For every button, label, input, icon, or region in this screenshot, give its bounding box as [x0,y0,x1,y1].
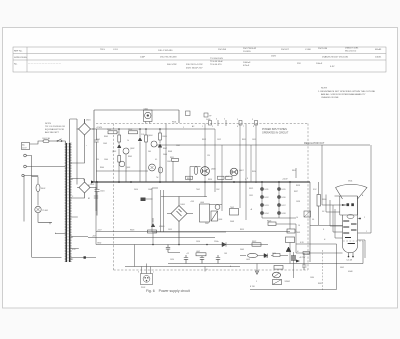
electrolytic C623 [216,255,220,264]
svg-text:D606: D606 [163,154,167,156]
power transformer T601 [66,143,69,262]
svg-text:6GH8: 6GH8 [348,271,352,273]
bridge rectifier D602 [71,179,96,198]
resistor R616 above bus [226,176,233,179]
svg-text:1k: 1k [127,140,129,142]
electrode bars [343,221,356,238]
svg-text:H2: H2 [71,259,73,261]
AC interlock connector [141,274,153,285]
note text block (left) [45,123,65,134]
svg-text:C612: C612 [217,139,221,141]
svg-text:R622: R622 [252,241,256,243]
svg-text:R620: R620 [252,171,256,173]
resistor R602 [129,131,138,134]
svg-text:VR601: VR601 [159,226,165,228]
svg-text:C615: C615 [168,229,172,231]
svg-text:C630: C630 [310,277,314,279]
svg-text:R626: R626 [267,220,271,222]
svg-text:1: 1 [366,231,367,233]
svg-text:Q607: Q607 [239,170,244,172]
electrolytic C621 [184,255,188,264]
thermistor TH601 oval [158,167,162,173]
svg-text:D615: D615 [282,189,286,191]
transistor Q603 [119,161,125,167]
svg-text:D614: D614 [265,213,269,215]
svg-text:450V 330uF 25V: 450V 330uF 25V [186,68,203,70]
resistor R606 vertical x160 [159,133,162,140]
svg-text:REG: REG [292,170,296,172]
verticals below bus [205,182,246,220]
svg-text:100uF: 100uF [316,63,323,65]
svg-text:TLS-54 470: TLS-54 470 [210,64,222,66]
svg-text:1000uF: 1000uF [243,62,251,64]
left-edge tiny labels [55,179,90,261]
svg-text:P602: P602 [141,287,145,289]
svg-text:Q603: Q603 [126,167,130,169]
table row 1 text [100,48,382,53]
svg-text:R621: R621 [249,188,253,190]
svg-text:0.1: 0.1 [155,159,157,161]
svg-text:+: + [86,145,87,147]
svg-text:D608: D608 [230,221,234,223]
choke L602 [196,253,206,256]
svg-text:G1: G1 [312,219,314,221]
svg-text:117V: 117V [22,147,27,149]
resistor R603 vertical [118,135,121,142]
svg-text:AUX RECEPT: AUX RECEPT [45,131,60,134]
CRT body [343,196,358,253]
svg-text:47: 47 [117,132,119,134]
transformer right tap upper [71,216,78,218]
main B+ bus [94,181,310,183]
svg-text:2SC458: 2SC458 [218,49,227,51]
diode D605 x160 [158,144,162,147]
wire plug2 to transformer [26,166,65,168]
svg-text:C604: C604 [104,159,108,161]
capacitor C602 [94,187,98,211]
resistor R624 [273,254,280,257]
dashed top edge [96,123,308,125]
svg-text:6R-A3: 6R-A3 [375,48,382,51]
svg-text:Q606: Q606 [211,169,216,171]
svg-text:2200u: 2200u [214,241,219,243]
arrow on dashed bottom [255,264,259,275]
svg-text:C603: C603 [103,143,107,145]
solder dot [84,256,86,258]
regulator out line y145 [157,144,370,146]
bridge rectifier D606 [167,197,193,245]
heater pins [349,253,354,258]
svg-text:140P: 140P [140,57,146,59]
svg-text:TLS-54 56uF: TLS-54 56uF [210,61,223,63]
resistor R615 above bus [218,176,225,179]
tube to socket wire [358,240,366,258]
capacitor C603 on rectifier output [94,129,98,182]
scattered component value labels [86,125,367,285]
svg-text:CHASSIS IN USE: CHASSIS IN USE [321,96,339,99]
svg-text:E 760: E 760 [250,286,255,288]
wire y171 [96,170,148,172]
capacitor C601 [95,182,100,216]
svg-text:R604: R604 [100,167,104,169]
svg-text:10LB1: 10LB1 [375,57,382,59]
labels left of columns [249,188,253,197]
VR cluster bottom [274,266,283,270]
svg-text:+150V: +150V [96,127,103,129]
cap on heater line [302,253,306,270]
connector pins on dashed edge [209,121,258,126]
svg-text:D616: D616 [282,197,286,199]
resistor R604 vertical [118,156,121,163]
svg-text:C611: C611 [249,195,253,197]
svg-text:C616: C616 [196,241,200,243]
wire bridge1 bottom to tap [71,137,85,163]
svg-text:— — — — — — — — — — — —: — — — — — — — — — — — — [28,63,62,65]
svg-text:P601: P601 [172,122,176,124]
svg-text:R616: R616 [208,179,212,181]
anode dot [359,218,361,220]
heater return bottom [250,244,337,290]
power transistor Q607 [230,168,238,176]
small connector on top line [186,111,191,116]
wire switch to transformer [65,141,67,144]
power transistor Q606 [201,167,210,176]
electrolytic C619 [166,245,170,253]
transistor Q604 [151,141,157,147]
transistor Q605 [149,164,156,171]
svg-text:3: 3 [138,272,139,274]
lower-left rails/verticals [96,182,135,267]
gnd rail junction dots [152,244,208,246]
tap tick labels [245,179,298,219]
transistor Q601 (top can) [144,110,153,122]
power switch S601 [58,139,66,141]
transistor Q602 [123,148,129,154]
heater bar [348,243,355,245]
svg-text:5: 5 [183,127,184,129]
svg-text:R618: R618 [130,230,134,232]
electrolytic C622 [200,256,204,264]
plug terminal upper [24,154,27,157]
gnd rail [96,244,268,246]
svg-text:H1: H1 [71,237,73,239]
ticks on dashed line [218,120,226,126]
svg-text:R602: R602 [128,129,132,131]
svg-text:25V: 25V [297,63,301,65]
mid rail [88,237,215,239]
svg-text:TV-18H 100V: TV-18H 100V [210,58,224,60]
svg-text:D609: D609 [240,249,244,251]
fuse F602 vertical [37,177,39,206]
svg-text:D606: D606 [181,204,185,206]
dark part at frame left [141,198,146,202]
svg-text:D618: D618 [282,213,286,215]
converter section frame [152,188,226,232]
transformer T603 cluster [287,229,295,233]
bus junction dots [96,181,291,183]
svg-text:R630: R630 [322,199,326,201]
svg-text:F602: F602 [41,188,45,190]
wire aux down [24,176,38,222]
switch component dark [211,211,218,221]
svg-text:1: 1 [153,272,154,274]
svg-text:V-090: V-090 [305,49,311,51]
wire fuse to switch [49,140,57,142]
svg-text:D611: D611 [265,189,269,191]
right vertical from bus [309,182,311,262]
parts list table [13,47,386,72]
bridge rectifier D601 [77,119,94,137]
svg-text:+140V: +140V [282,179,288,181]
svg-text:WZ-210 D2: WZ-210 D2 [345,50,357,52]
svg-text:8: 8 [247,178,248,180]
arrow into bus left [91,181,95,184]
aux terminal [22,174,24,176]
svg-text:D610: D610 [134,189,138,191]
svg-text:9: 9 [252,119,253,121]
electrolytic C625 dark [291,256,296,260]
+12V rail [96,231,290,233]
svg-text:EQUIVALENT FOR: EQUIVALENT FOR [45,128,64,131]
svg-text:3: 3 [237,119,238,121]
svg-text:330·1W 1k·1/2W: 330·1W 1k·1/2W [186,64,203,66]
svg-text:R609: R609 [104,136,108,138]
svg-text:R608: R608 [168,151,172,153]
svg-text:560·1/2W: 560·1/2W [167,64,177,66]
svg-text:6: 6 [237,126,238,128]
right-mid small cluster [268,222,276,225]
middle verticals under dashed top [205,124,256,183]
noise filter box [22,143,30,150]
anode return wire [358,145,372,233]
svg-text:F601 3A: F601 3A [43,137,51,140]
svg-text:C613: C613 [252,139,256,141]
svg-text:C620: C620 [170,259,174,261]
svg-text:5-680: 5-680 [206,119,210,121]
svg-text:R619: R619 [240,229,244,231]
svg-text:2SC627: 2SC627 [281,49,290,51]
bottom rail y263.5 [168,263,343,265]
wire bottom return [32,257,62,259]
dashed bottom edge [114,269,309,271]
grid oval [347,215,354,219]
svg-text:C602: C602 [96,139,100,141]
svg-text:R611: R611 [170,157,174,159]
wire plug1 down [26,156,31,258]
dashed unit edge near CRT [322,250,324,290]
svg-text:5: 5 [224,119,225,121]
svg-text:R628: R628 [296,185,300,187]
ticks labels above mid verticals [202,126,254,128]
svg-text:2.2k: 2.2k [141,134,144,136]
svg-text:2SC1030: 2SC1030 [318,48,328,50]
svg-text:D613: D613 [265,205,269,207]
svg-text:R625: R625 [264,257,268,259]
svg-text:T602: T602 [230,207,234,209]
svg-text:S/PROCESS: S/PROCESS [14,57,27,59]
svg-text:D617: D617 [282,205,286,207]
svg-text:C609: C609 [176,145,180,147]
svg-text:L603: L603 [246,259,250,261]
resistor R622 on rail [252,243,261,246]
svg-text:10: 10 [298,225,300,227]
svg-text:C628: C628 [296,201,300,203]
svg-text:T602: T602 [196,189,200,191]
svg-text:G2: G2 [322,211,324,213]
transistor Q608 [215,205,220,210]
svg-text:2SC735 B-62: 2SC735 B-62 [243,48,257,50]
CRT socket box [343,240,363,242]
svg-text:REGULATOR OUT: REGULATOR OUT [304,142,325,145]
svg-text:C-51: C-51 [113,49,119,51]
oval component right row [248,253,258,257]
diode D621 [264,254,268,258]
wire lamp to bus [38,222,52,224]
svg-text:Fig. 6 Power supply circuit: Fig. 6 Power supply circuit [146,289,190,293]
diode D620 dark [286,247,291,252]
wire to q606 [190,167,201,183]
svg-text:4: 4 [216,119,217,121]
svg-text:No.: No. [14,64,18,66]
svg-text:TR-5: TR-5 [100,49,106,51]
wire from filter to fuse [30,141,44,144]
svg-text:OPERATED IN CIRCUIT: OPERATED IN CIRCUIT [262,131,289,134]
svg-text:R615: R615 [187,178,191,180]
svg-text:2: 2 [364,217,365,219]
svg-text:R632: R632 [318,283,322,285]
svg-text:TR 1 IS 2SD180 OR: TR 1 IS 2SD180 OR [45,126,65,128]
svg-text:C626: C626 [272,253,276,255]
fuse F601 [43,140,49,143]
diode D604 on x140 [138,138,142,141]
svg-text:B2: B2 [88,198,90,200]
resistor R601 [108,131,117,134]
svg-text:ARE ALL 1/4W FOR INTERCHANGEAB: ARE ALL 1/4W FOR INTERCHANGEABILITY [321,93,366,96]
svg-text:R627: R627 [294,191,298,193]
svg-text:120: 120 [207,155,210,157]
heater pin dots [348,256,350,258]
diode D603 [117,145,121,148]
svg-text:560: 560 [148,151,151,153]
table row label REF [14,51,27,66]
transformer tap left wires [55,234,96,258]
junction dots on rail [118,128,161,130]
wire transformer top feed [70,119,85,185]
main unit box top [94,110,179,182]
note text mid (power input) [262,128,289,134]
svg-text:6.3V: 6.3V [330,66,335,68]
svg-text:T601: T601 [58,141,62,143]
resistor R611 [172,159,179,162]
vertical wires regulator [119,124,166,183]
svg-text:R605: R605 [128,156,132,158]
svg-text:D602: D602 [90,184,94,186]
solid line above dashed bottom [125,266,240,268]
svg-text:L606: L606 [200,202,204,204]
wire transformer tap to bridge2 top [72,179,85,181]
svg-text:C601: C601 [100,191,105,193]
svg-text:L602: L602 [196,251,200,253]
svg-text:10D-1 WZ-090: 10D-1 WZ-090 [158,50,173,52]
svg-text:V602: V602 [340,267,344,269]
svg-text:1: 1 [202,126,203,128]
svg-text:V601: V601 [348,181,352,183]
svg-text:2SC735 2SC458: 2SC735 2SC458 [160,57,177,59]
reg feedback tick [295,168,297,178]
diode column B [277,182,280,218]
svg-text:+12V: +12V [97,230,102,232]
small part above dashed line right [204,113,208,117]
svg-text:+12: +12 [186,253,189,255]
note text block (top right) [318,88,376,100]
dashed unit outline [96,124,308,271]
svg-text:2: 2 [212,126,213,128]
plug terminal lower [24,165,27,168]
svg-text:R607: R607 [163,148,167,150]
svg-text:Q604: Q604 [148,135,152,137]
svg-text:R612: R612 [202,139,206,141]
svg-text:7: 7 [243,126,244,128]
svg-text:9: 9 [245,179,246,181]
svg-text:10: 10 [296,217,298,219]
diode column A [260,182,263,218]
svg-text:8: 8 [253,126,254,128]
svg-text:R601: R601 [107,129,111,131]
svg-text:NOTE: NOTE [321,88,328,90]
svg-text:NOTE: NOTE [45,123,52,125]
svg-text:Q602: Q602 [112,151,116,153]
svg-text:REF No.: REF No. [14,51,23,53]
CRT grid box [340,196,358,215]
svg-text:+B 75V: +B 75V [299,257,306,259]
svg-text:GND: GND [97,243,102,245]
table row 2 text [140,56,382,59]
resistor R605 vertical [145,135,148,142]
arrow to plates [342,204,346,206]
svg-text:D607: D607 [205,223,209,225]
brightness control box [304,211,311,217]
svg-text:C608: C608 [148,189,152,191]
svg-text:R613: R613 [242,139,246,141]
transformer T602 small [230,209,239,216]
svg-text:2SA628 2SC627 2SC1030: 2SA628 2SC627 2SC1030 [322,56,349,59]
svg-text:PL601: PL601 [43,210,48,212]
resistor R614 above bus [186,176,193,179]
heater supply lines [296,244,343,253]
focus resistor vertical [317,195,320,207]
resistor R610 oval [194,167,198,175]
svg-text:D601: D601 [86,120,91,122]
CRT funnel [336,184,368,199]
wire bridge1 left tip [76,128,79,130]
inverter transformer winding rect [200,204,210,222]
+150V rail [92,128,215,130]
svg-text:0.47: 0.47 [226,176,229,178]
E notch on dashed bottom [204,267,206,272]
svg-text:2SB407 10E1: 2SB407 10E1 [345,48,359,50]
svg-text:B1: B1 [88,185,90,187]
svg-text:160V: 160V [271,56,277,58]
diode on gnd rail [222,242,226,246]
pilot lamp PL601 [35,206,41,212]
svg-text:T603: T603 [296,232,300,234]
svg-text:1S1555: 1S1555 [243,51,251,53]
svg-text:D612: D612 [265,197,269,199]
filter row under converter [168,252,180,254]
dashed right vertical [307,124,309,271]
svg-text:Q602: Q602 [130,148,134,150]
svg-text:220: 220 [96,159,99,161]
